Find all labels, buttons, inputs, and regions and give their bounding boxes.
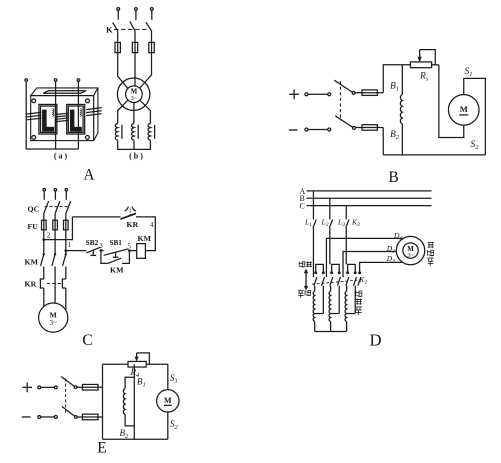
terminal 3 (b): [150, 8, 153, 20]
switch QC link dashed: [45, 206, 70, 208]
motor M 3~ C: [39, 303, 68, 332]
wire blade2 to fuse: [134, 31, 136, 43]
knife switch blade bottom E: [62, 406, 77, 418]
rotor coil 1 (b): [115, 123, 122, 140]
rheostat Rs B: [410, 62, 438, 68]
switch link dashed B: [339, 81, 341, 121]
fuse FU 2: [53, 220, 58, 230]
svg-text:QC: QC: [28, 205, 40, 214]
switch K blade 2: [130, 21, 135, 30]
wire QC to FU 2: [54, 213, 56, 220]
autotransformer coil 2: [329, 286, 339, 332]
svg-text:3~: 3~: [407, 253, 414, 259]
wire node5 to KM coil: [129, 250, 136, 252]
fuse FU 1: [42, 220, 47, 230]
switch QC blade 3: [66, 201, 71, 213]
KR heater link dashed: [47, 283, 62, 285]
svg-text:KR: KR: [25, 279, 37, 288]
field winding E: [123, 377, 134, 426]
svg-text:M: M: [407, 245, 414, 253]
wire node2 to control rail: [44, 217, 73, 240]
thermal relay contact KR: [121, 207, 137, 220]
switch K blade 1: [113, 22, 118, 30]
star point bottom bus D: [315, 331, 347, 333]
contactor coil KM: [137, 244, 146, 259]
wire D2 to motor: [343, 252, 397, 278]
drop L2 lower wire: [329, 228, 331, 265]
svg-text:K: K: [106, 24, 113, 34]
run-start double arrow: [304, 269, 308, 291]
wire coils to bottom bus (b): [118, 140, 151, 149]
bottom rail B: [383, 154, 485, 156]
fuse 1 (b): [115, 42, 120, 52]
svg-text:M: M: [460, 104, 468, 114]
transformer window left: [39, 104, 57, 134]
svg-text:3~: 3~: [131, 95, 138, 102]
fuse 2 (b): [132, 42, 137, 52]
wire FU down phase3: [65, 230, 67, 254]
core bolt top-left: [32, 99, 36, 103]
label qidong (start): [298, 290, 304, 298]
wire outer loop bottom-left of core: [26, 96, 78, 149]
transformer core 3D front face (a): [31, 96, 94, 141]
knife switch blade bottom B: [335, 116, 355, 130]
node 2 junction: [42, 238, 45, 241]
KM main contact 3: [63, 253, 67, 279]
drop L3 lower wire: [345, 228, 347, 265]
switch K3 blade 1: [313, 219, 316, 227]
wire blade1 to fuse: [117, 31, 119, 43]
stop button SB2: [86, 247, 100, 255]
terminal 1 (b): [117, 8, 120, 20]
fuse bottom B: [355, 125, 383, 131]
field winding B1-B2: [400, 65, 402, 155]
fixed contact blade under D3: [358, 277, 361, 286]
node 3 junction: [100, 249, 103, 252]
core bolt bottom-right: [86, 136, 90, 140]
drop wire L1: [312, 191, 314, 220]
KR heater element 2: [62, 279, 65, 310]
bus A: [300, 187, 432, 196]
svg-text:KM: KM: [25, 258, 39, 267]
rheostat Rs arrow tap: [418, 50, 436, 65]
terminal pin 2 of core: [54, 79, 57, 149]
svg-text:SB1: SB1: [110, 239, 123, 247]
switch link dashed E: [65, 379, 67, 415]
svg-text:C: C: [82, 332, 92, 349]
wire motor to coil1 (b): [118, 100, 128, 123]
fuse top E: [77, 384, 103, 390]
wire D1 to motor: [326, 238, 403, 277]
wire phase2 down C: [54, 279, 56, 303]
supply circles + row E: [38, 386, 57, 389]
knife switch blade top B: [334, 80, 355, 94]
svg-text:FU: FU: [28, 222, 39, 231]
switch K blade 3: [146, 22, 152, 31]
svg-text:M: M: [50, 310, 57, 319]
svg-text:2: 2: [47, 231, 51, 239]
rheostat R4 E: [128, 361, 168, 367]
motor M 3~ (b) inner circle: [126, 86, 143, 103]
label yunxing (run): [299, 262, 305, 268]
label diandongji (motor): [428, 242, 434, 266]
wire fuse3 to motor (b): [140, 53, 152, 89]
switch K link dashed: [114, 28, 149, 30]
rheostat R4 arrow tap: [135, 353, 150, 364]
wire QC to FU 3: [65, 213, 67, 220]
left rail E: [102, 364, 104, 439]
start button SB1: [101, 249, 128, 257]
fuse FU 3: [64, 220, 69, 230]
motor M 3~ (b) outer circle: [117, 78, 149, 110]
wire rheostat to motor bottom B: [439, 65, 464, 138]
terminal 3 C: [65, 189, 67, 200]
svg-text:KR: KR: [127, 220, 139, 229]
wire fuse2 to motor (b): [134, 53, 136, 86]
motor M 3~ D inner: [403, 243, 418, 259]
svg-text:3: 3: [99, 242, 103, 250]
motor M 3~ D outer: [396, 236, 424, 264]
bottom rail E: [103, 438, 168, 440]
wire FU down phase1: [43, 230, 45, 254]
wire QC to FU 1: [43, 213, 45, 220]
fixed contact blade pair 2: [330, 277, 341, 286]
control top rail to KR: [72, 216, 120, 218]
wire node1 to SB2: [66, 250, 87, 252]
fixed contact blade pair 1: [314, 277, 325, 286]
transformer core top face: [31, 88, 98, 96]
minus terminal E: [22, 416, 31, 418]
core bolt top-right: [86, 99, 90, 103]
core bolt bottom-left: [32, 136, 36, 140]
rotor coil 2 (b): [132, 123, 139, 140]
wire rail to motor top E: [167, 364, 169, 390]
svg-text:D: D: [370, 331, 382, 350]
winding turns center leg: [55, 113, 68, 122]
wire fuse to bottom rail B: [382, 128, 384, 155]
wire FU down phase2: [54, 230, 56, 254]
wire motor bottom E: [167, 412, 169, 439]
svg-text:E: E: [97, 440, 106, 457]
svg-text:( b ): ( b ): [129, 152, 143, 161]
switch QC blade 2: [55, 201, 60, 213]
bus B: [300, 194, 432, 203]
switch K3 blade 3: [346, 219, 349, 227]
KR heater element 1: [40, 279, 43, 306]
control rail KR to KM coil: [136, 217, 155, 251]
plus terminal E: [22, 382, 32, 392]
transformer core top slot: [43, 91, 86, 94]
svg-text:4: 4: [150, 221, 154, 229]
KM self-hold contact branch: [101, 251, 130, 264]
autotransformer coil 3: [345, 286, 355, 332]
fixed contact blade pair 3: [346, 277, 357, 286]
wire motor to coil2 (b): [133, 103, 135, 124]
svg-text:SB2: SB2: [86, 239, 99, 247]
motor M armature E: [157, 390, 179, 412]
terminal pin 3 of core: [77, 79, 80, 149]
svg-text:KM: KM: [110, 266, 124, 275]
minus terminal B: [289, 129, 298, 131]
fuse bottom E: [77, 414, 102, 420]
svg-text:( a ): ( a ): [54, 152, 68, 161]
svg-text:B: B: [388, 169, 398, 186]
winding turns left leg: [27, 112, 42, 119]
moving bridge contact 3: [346, 264, 357, 274]
terminal pin 1 of core: [25, 79, 28, 96]
svg-text:5: 5: [127, 242, 131, 250]
wire motor to coil3 (b): [140, 100, 151, 123]
terminal 2 (b): [135, 8, 138, 20]
supply circles + row: [305, 93, 331, 96]
plus terminal B: [289, 89, 299, 99]
K2 trip link dashed: [312, 280, 357, 284]
knife switch blade top E: [61, 377, 77, 389]
field branch line E: [133, 364, 135, 439]
switch K3 blade 2: [329, 219, 332, 227]
supply circles - row E: [38, 416, 57, 419]
wire fuse1 to motor (b): [118, 53, 128, 89]
transformer core right face: [94, 88, 98, 141]
wire blade3 to fuse: [151, 31, 153, 43]
terminal 2 C: [54, 189, 56, 200]
KM main contact 2: [52, 253, 56, 279]
node 5 junction: [128, 249, 131, 252]
svg-text:1: 1: [68, 241, 72, 249]
svg-text:A: A: [83, 167, 95, 184]
svg-text:3~: 3~: [50, 319, 58, 327]
terminal 1 C: [43, 189, 45, 200]
svg-text:M: M: [164, 396, 172, 405]
svg-text:KM: KM: [138, 234, 152, 243]
label buchangqi (compensator): [356, 291, 362, 315]
node 1 junction: [64, 249, 67, 252]
motor M armature B: [448, 95, 479, 126]
wire fuse to top rail B: [383, 65, 410, 93]
rotor coil 3 (b): [148, 123, 155, 140]
autotransformer coil 1: [313, 286, 323, 332]
switch QC blade 1: [44, 201, 49, 213]
drop wire L3: [345, 206, 347, 220]
supply circles - row: [305, 128, 331, 131]
moving bridge contact 2: [330, 264, 341, 274]
fuse top B: [355, 90, 383, 96]
moving bridge contact 1: [314, 264, 325, 274]
bus C: [300, 202, 432, 211]
top rail E: [103, 363, 129, 365]
KM main contact 1: [41, 253, 45, 279]
drop L1 lower wire: [312, 228, 314, 278]
fuse 3 (b): [149, 42, 154, 52]
wire D3 to motor: [360, 262, 403, 272]
drop wire L2: [329, 198, 331, 219]
wire motor top to S1 rail B: [464, 78, 486, 154]
D3 contact dot: [358, 271, 361, 274]
transformer window right: [67, 104, 85, 134]
svg-text:C: C: [300, 202, 305, 211]
winding turns right leg: [86, 108, 101, 116]
